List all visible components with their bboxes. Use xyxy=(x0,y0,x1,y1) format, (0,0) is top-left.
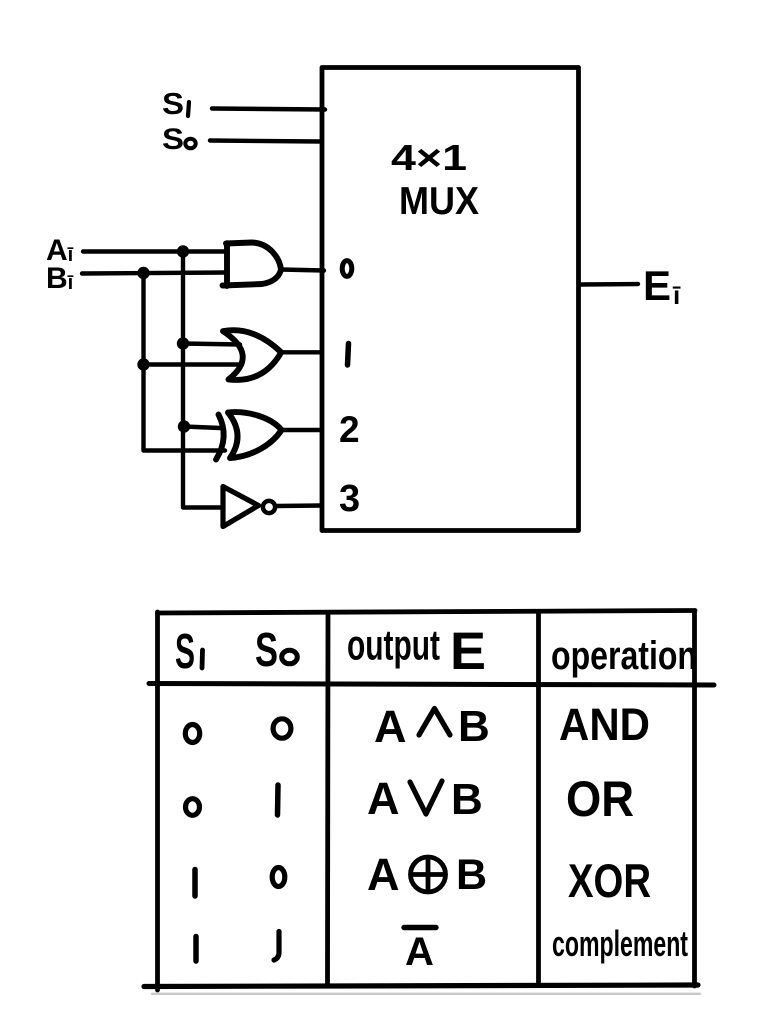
svg-text:B: B xyxy=(456,851,487,899)
wire S0 xyxy=(210,141,321,142)
svg-text:S: S xyxy=(162,86,184,121)
svg-text:A: A xyxy=(374,701,407,752)
svg-text:A: A xyxy=(405,930,434,974)
svg-text:operation: operation xyxy=(551,634,697,678)
junction dot OR top xyxy=(177,337,189,349)
wire OR top input xyxy=(183,344,240,345)
row2 S0 value 1 xyxy=(275,785,281,815)
svg-text:AND: AND xyxy=(559,699,650,750)
svg-text:A: A xyxy=(367,773,400,824)
wire XOR output xyxy=(282,428,323,432)
svg-text:3: 3 xyxy=(339,478,360,520)
wire XOR top input xyxy=(184,427,220,429)
svg-text:2: 2 xyxy=(339,409,360,450)
table top border xyxy=(158,611,696,614)
junction dot B-AND xyxy=(137,267,149,279)
wire S1 xyxy=(212,109,325,110)
wire OR bottom input xyxy=(144,362,243,366)
mux U1 box xyxy=(322,68,579,531)
row2 S1 value 0 xyxy=(186,799,200,816)
pin label 0 xyxy=(342,261,352,277)
svg-text:S: S xyxy=(255,624,278,677)
table header separator xyxy=(149,684,714,686)
svg-text:S: S xyxy=(162,123,184,156)
junction dot A-AND xyxy=(177,245,189,257)
svg-text:S: S xyxy=(175,625,195,679)
svg-text:complement: complement xyxy=(552,923,688,964)
row4 S1 value 1 xyxy=(193,937,199,962)
svg-text:E: E xyxy=(450,622,486,681)
wire A branch vertical to NOT xyxy=(183,252,223,508)
wire B branch vertical to XOR xyxy=(144,273,226,451)
table bottom shadow stroke xyxy=(152,993,700,995)
wire B input xyxy=(82,273,227,274)
and gate G1 xyxy=(223,243,282,287)
row1 S1 value 0 xyxy=(185,725,199,743)
svg-text:4×1: 4×1 xyxy=(391,137,467,178)
row1 S0 value 0 xyxy=(273,719,291,738)
wire AND output xyxy=(281,270,324,271)
wire OR output xyxy=(281,350,320,354)
wire E output xyxy=(581,282,638,287)
svg-text:B: B xyxy=(458,702,490,751)
or gate G2 xyxy=(223,330,281,380)
row4 S0 value 1 xyxy=(274,932,279,961)
wire NOT output xyxy=(277,503,323,508)
table left border xyxy=(155,612,160,990)
table bottom border xyxy=(144,985,698,987)
xor gate G3 body xyxy=(228,412,282,458)
table divider S columns / output xyxy=(325,613,330,985)
not gate G4 bubble xyxy=(263,501,275,513)
svg-text:output: output xyxy=(347,622,440,670)
xor gate G3 input arc xyxy=(216,415,224,460)
wire A input xyxy=(83,249,227,253)
not gate G4 triangle xyxy=(223,487,259,527)
row3 S0 value 0 xyxy=(272,868,285,887)
svg-text:B: B xyxy=(451,775,483,824)
svg-text:OR: OR xyxy=(566,771,634,827)
svg-text:A: A xyxy=(367,849,400,900)
table right border xyxy=(692,611,697,986)
svg-text:MUX: MUX xyxy=(399,180,479,223)
pin label 1 xyxy=(348,344,349,366)
svg-text:XOR: XOR xyxy=(568,854,651,907)
table divider output / operation xyxy=(536,612,541,985)
junction dot XOR top xyxy=(178,420,190,432)
row3 S1 value 1 xyxy=(192,870,198,897)
junction dot OR bottom xyxy=(137,358,149,370)
